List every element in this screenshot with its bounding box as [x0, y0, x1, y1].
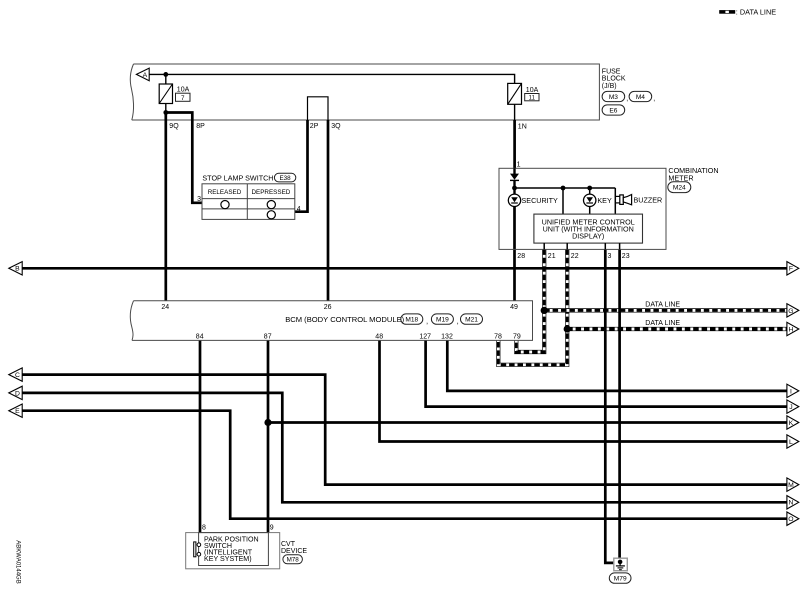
svg-text:STOP LAMP SWITCH: STOP LAMP SWITCH: [202, 174, 273, 183]
svg-text:BUZZER: BUZZER: [634, 196, 663, 205]
svg-text:DATA LINE: DATA LINE: [645, 320, 680, 327]
svg-text:48: 48: [375, 334, 383, 341]
svg-text:3Q: 3Q: [331, 123, 341, 130]
svg-text:3: 3: [197, 196, 201, 203]
svg-text:M24: M24: [673, 185, 686, 192]
svg-text:F: F: [789, 266, 793, 273]
svg-text:O: O: [788, 516, 793, 523]
svg-text:DATA LINE: DATA LINE: [645, 302, 680, 309]
svg-text:9: 9: [270, 525, 274, 532]
svg-text:8: 8: [202, 525, 206, 532]
svg-text:2P: 2P: [310, 123, 319, 130]
svg-text:,: ,: [457, 317, 459, 326]
svg-text:49: 49: [510, 304, 518, 311]
svg-text:,: ,: [626, 96, 628, 103]
svg-text:8P: 8P: [196, 123, 205, 130]
svg-text:(J/B): (J/B): [602, 83, 617, 90]
svg-text:,: ,: [653, 96, 655, 103]
svg-text:E38: E38: [279, 175, 291, 182]
svg-text:SECURITY: SECURITY: [522, 196, 559, 205]
svg-text:DEPRESSED: DEPRESSED: [251, 189, 290, 196]
svg-text:K: K: [789, 420, 794, 427]
svg-text:M4: M4: [636, 94, 645, 101]
svg-text:23: 23: [622, 253, 630, 260]
svg-text:M21: M21: [465, 317, 478, 324]
svg-text:BCM (BODY CONTROL MODULE): BCM (BODY CONTROL MODULE): [285, 315, 404, 324]
svg-text:J: J: [789, 404, 792, 411]
svg-text:9Q: 9Q: [169, 123, 179, 130]
svg-text:BLOCK: BLOCK: [602, 76, 626, 83]
svg-text:G: G: [788, 308, 793, 315]
svg-text:A: A: [143, 72, 148, 79]
svg-text:132: 132: [441, 334, 453, 341]
svg-text:87: 87: [264, 334, 272, 341]
svg-text:E: E: [15, 408, 20, 415]
svg-text:M79: M79: [614, 576, 627, 583]
svg-text:3: 3: [608, 253, 612, 260]
svg-text:RELEASED: RELEASED: [208, 189, 242, 196]
svg-text:L: L: [789, 439, 793, 446]
svg-text:24: 24: [161, 304, 169, 311]
svg-text:DISPLAY): DISPLAY): [572, 232, 604, 241]
svg-text:M: M: [788, 482, 794, 489]
svg-text:28: 28: [517, 253, 525, 260]
svg-text:7: 7: [181, 95, 185, 102]
svg-text:M18: M18: [405, 317, 418, 324]
svg-text:N: N: [788, 500, 793, 507]
svg-text:4: 4: [297, 206, 301, 213]
svg-text:B: B: [15, 266, 20, 273]
svg-text:H: H: [788, 326, 793, 333]
svg-text:METER: METER: [668, 173, 693, 182]
svg-text:M19: M19: [436, 317, 449, 324]
svg-text:79: 79: [513, 334, 521, 341]
svg-text:78: 78: [494, 334, 502, 341]
svg-text:CVT: CVT: [281, 541, 296, 548]
svg-text:C: C: [15, 372, 20, 379]
svg-text:D: D: [15, 390, 20, 397]
svg-text:M78: M78: [287, 557, 300, 564]
svg-text:KEY SYSTEM): KEY SYSTEM): [204, 555, 252, 563]
svg-text:: DATA LINE: : DATA LINE: [736, 7, 776, 16]
svg-text:127: 127: [419, 334, 431, 341]
svg-text:26: 26: [324, 304, 332, 311]
svg-text:22: 22: [571, 253, 579, 260]
svg-text:KEY: KEY: [597, 196, 612, 205]
svg-text:84: 84: [196, 334, 204, 341]
svg-text:M3: M3: [609, 94, 618, 101]
svg-text:1N: 1N: [518, 124, 527, 131]
svg-text:,: ,: [426, 317, 428, 326]
svg-text:ABKWA0144GB: ABKWA0144GB: [15, 540, 21, 583]
svg-text:1: 1: [517, 162, 521, 169]
svg-text:E6: E6: [609, 107, 617, 114]
svg-text:FUSE: FUSE: [602, 69, 621, 76]
svg-text:DEVICE: DEVICE: [281, 548, 307, 555]
svg-text:11: 11: [529, 95, 536, 101]
svg-text:21: 21: [548, 253, 556, 260]
svg-text:10A: 10A: [177, 86, 190, 93]
svg-text:I: I: [790, 388, 792, 395]
